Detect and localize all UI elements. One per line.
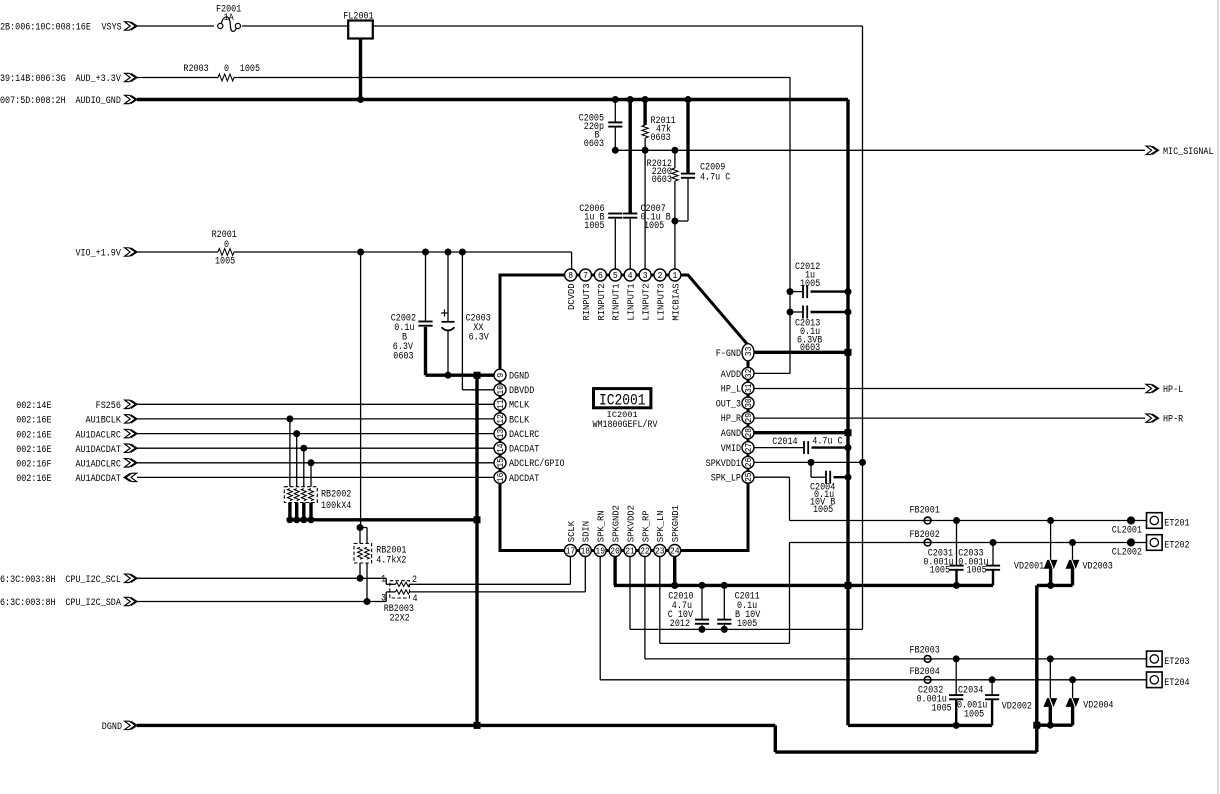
svg-text:7: 7: [583, 270, 588, 281]
wire VSYS: [137, 25, 214, 27]
terminal ET202: [1147, 535, 1163, 551]
IC2001 pin 19 SPK_RN: [594, 545, 606, 557]
IC2001 pin 11 MCLK: [494, 398, 506, 410]
svg-text:6:3C:003:8H: 6:3C:003:8H: [0, 575, 56, 586]
IC2001 pin 20 SPKGND2: [609, 545, 621, 557]
svg-text:CL2001: CL2001: [1112, 526, 1142, 537]
wire FL2001 to AUDIO_GND rail: [359, 39, 362, 100]
svg-text:IC2001: IC2001: [599, 392, 646, 410]
svg-text:4: 4: [628, 270, 633, 281]
svg-text:002:16E: 002:16E: [16, 474, 51, 485]
svg-text:F-GND: F-GND: [716, 349, 741, 360]
svg-text:007:5D:008:2H: 007:5D:008:2H: [0, 96, 66, 107]
svg-text:AU1ADCLRC: AU1ADCLRC: [75, 460, 120, 471]
IC2001 pin 8 DCVDD: [565, 269, 577, 281]
svg-text:CL2002: CL2002: [1112, 548, 1142, 559]
wire CPU_I2C_SCL: [137, 577, 386, 579]
svg-text:002:16E: 002:16E: [16, 430, 51, 441]
svg-text:18: 18: [581, 546, 591, 557]
wire DGND bottom rail: [137, 724, 775, 727]
IC2001 pin 3 LINPUT2: [639, 269, 651, 281]
svg-text:OUT_3: OUT_3: [716, 399, 741, 410]
terminal ET204: [1147, 672, 1163, 688]
svg-text:VSYS: VSYS: [102, 23, 122, 34]
svg-text:3: 3: [381, 593, 386, 604]
svg-text:22: 22: [640, 546, 650, 557]
svg-text:30: 30: [743, 398, 754, 408]
svg-text:AU1DACDAT: AU1DACDAT: [75, 445, 120, 456]
wire RB2003 to SDIN pin18: [410, 591, 586, 593]
svg-text:ET203: ET203: [1164, 657, 1189, 668]
IC2001 pin 4 LINPUT1: [624, 269, 636, 281]
svg-text:22X2: 22X2: [390, 614, 410, 625]
svg-text:6:3C:003:8H: 6:3C:003:8H: [0, 598, 56, 609]
svg-text:1005: 1005: [215, 257, 235, 268]
svg-text:RINPUT3: RINPUT3: [581, 284, 592, 321]
IC2001 pin 6 RINPUT2: [594, 269, 606, 281]
wire DGND vertical rail: [475, 375, 478, 725]
svg-text:HP_L: HP_L: [721, 385, 741, 396]
svg-text:FB2002: FB2002: [910, 530, 940, 541]
svg-text:AVDD: AVDD: [721, 370, 741, 381]
svg-text:FB2004: FB2004: [910, 667, 940, 678]
svg-text:VIO_+1.9V: VIO_+1.9V: [75, 249, 120, 260]
wire LINPUT2 pin3 column: [644, 150, 646, 269]
IC2001 pin 13 DACLRC: [494, 428, 506, 440]
svg-text:25: 25: [743, 472, 754, 482]
svg-text:MICBIAS: MICBIAS: [670, 283, 681, 321]
svg-text:DGND: DGND: [509, 372, 529, 383]
dot CL2001: [1127, 516, 1135, 524]
IC2001 pin 15 ADCLRC/GPIO: [494, 457, 506, 469]
wire RB2001 to I2C lines: [359, 563, 361, 578]
svg-text:LINPUT1: LINPUT1: [626, 283, 637, 321]
wire MIC_SIGNAL net: [615, 149, 1145, 151]
svg-text:23: 23: [655, 546, 665, 557]
svg-text:AU1DACLRC: AU1DACLRC: [75, 430, 120, 441]
svg-text:1005: 1005: [584, 221, 604, 232]
svg-text:1005: 1005: [737, 619, 757, 630]
wire RB2002 ground bar: [287, 518, 477, 521]
wire DBVDD to VIO: [461, 252, 463, 390]
svg-text:13: 13: [495, 429, 506, 439]
terminal ET201: [1147, 513, 1163, 529]
svg-text:0603: 0603: [652, 175, 672, 186]
IC2001 pin 25 SPK_LP: [742, 471, 754, 483]
svg-text:1005: 1005: [644, 221, 664, 232]
wire FS256: [137, 403, 495, 405]
svg-text:MIC_SIGNAL: MIC_SIGNAL: [1163, 147, 1214, 158]
wire RB2003 to SCLK pin17: [410, 583, 571, 585]
svg-text:6: 6: [598, 270, 603, 281]
svg-text:28: 28: [743, 428, 754, 438]
svg-text:17: 17: [566, 546, 576, 557]
svg-text:SPKGND1: SPKGND1: [670, 505, 681, 543]
svg-text:002:14E: 002:14E: [16, 401, 51, 412]
svg-text:VD2003: VD2003: [1083, 562, 1113, 573]
svg-text:002:16F: 002:16F: [16, 460, 51, 471]
svg-text:ADCDAT: ADCDAT: [509, 474, 539, 485]
svg-text:1005: 1005: [967, 566, 987, 577]
svg-text:4.7kX2: 4.7kX2: [376, 555, 406, 567]
wire HP_L: [754, 388, 1145, 390]
IC2001 pin 31 HP_L: [742, 382, 754, 394]
svg-text:0603: 0603: [800, 343, 820, 354]
svg-text:32: 32: [743, 369, 754, 379]
svg-text:SPKVDD2: SPKVDD2: [625, 505, 636, 542]
svg-text:39:14B:006:3G: 39:14B:006:3G: [0, 74, 66, 85]
svg-text:100kX4: 100kX4: [321, 500, 351, 512]
wire VIO to RB2001: [360, 252, 362, 528]
IC2001 pin 21 SPKVDD2: [624, 545, 636, 557]
dot CL2002: [1127, 538, 1135, 546]
wire FB2004 line to ET204: [992, 679, 1146, 681]
wire AUD_+3.3V: [137, 77, 218, 79]
svg-text:FB2003: FB2003: [910, 646, 940, 657]
svg-text:12: 12: [495, 414, 506, 424]
wire SPK_RP pin22 to FB2003: [644, 556, 646, 659]
svg-text:DCVDD: DCVDD: [566, 283, 577, 310]
resistor pack RB2002 100kX4: [284, 487, 317, 503]
svg-text:HP_R: HP_R: [721, 414, 741, 425]
IC2001 pin 17 SCLK: [564, 545, 576, 557]
svg-text:4.7u C: 4.7u C: [700, 173, 730, 184]
wire AVDD to AUD_+3.3V: [754, 372, 790, 374]
resistor pack RB2001 4.7kX2: [360, 527, 367, 529]
wire VIO_+1.9V: [137, 251, 218, 253]
svg-text:VD2002: VD2002: [1002, 702, 1032, 713]
svg-text:1: 1: [381, 574, 386, 585]
svg-text:11: 11: [495, 399, 506, 409]
svg-text:CPU_I2C_SDA: CPU_I2C_SDA: [65, 598, 121, 609]
svg-text:4.7u C: 4.7u C: [812, 437, 842, 448]
wire SPK_RN pin19 to FB2004: [599, 556, 601, 680]
svg-text:VD2004: VD2004: [1083, 701, 1113, 712]
wire RB2002 leads to ground bar: [288, 503, 291, 520]
svg-text:RINPUT1: RINPUT1: [611, 283, 622, 321]
svg-text:27: 27: [743, 443, 754, 453]
svg-text:AUDIO_GND: AUDIO_GND: [75, 96, 120, 107]
svg-text:29: 29: [743, 413, 754, 423]
IC2001 pin 5 RINPUT1: [609, 269, 621, 281]
svg-text:1005: 1005: [813, 505, 833, 516]
IC2001 pin 7 RINPUT3: [580, 269, 592, 281]
svg-text:AGND: AGND: [721, 429, 741, 440]
svg-text:SDIN: SDIN: [581, 521, 592, 542]
svg-text:HP-R: HP-R: [1163, 415, 1183, 426]
svg-text:C2014: C2014: [772, 437, 797, 448]
wire FB2003 line to ET203: [956, 658, 1146, 660]
junction SPKGND rail / AUDIO_GND: [845, 582, 852, 589]
wire F-GND to AUDIO_GND: [754, 351, 848, 354]
svg-text:1005: 1005: [930, 566, 950, 577]
IC2001 pin 26 SPKVDD1: [742, 456, 754, 468]
svg-text:DACDAT: DACDAT: [509, 445, 539, 456]
svg-text:AU1ADCDAT: AU1ADCDAT: [75, 474, 120, 485]
svg-text:FS256: FS256: [96, 401, 121, 412]
wire VD upper ground: [1037, 584, 1073, 587]
svg-text:16: 16: [495, 473, 506, 483]
IC2001 pin 12 BCLK: [494, 413, 506, 425]
wire SPK_LN pin23 to FB2002: [659, 556, 661, 643]
IC2001 pin 10 DBVDD: [494, 384, 506, 396]
IC2001 pin 1 MICBIAS: [669, 269, 681, 281]
svg-text:1005: 1005: [964, 710, 984, 721]
IC2001 pin 14 DACDAT: [494, 442, 506, 454]
IC2001 pin 33 F-GND: [742, 344, 754, 361]
svg-text:002:16E: 002:16E: [16, 416, 51, 427]
wire AU1DACLRC: [137, 433, 495, 435]
svg-text:FB2001: FB2001: [910, 506, 940, 517]
svg-text:20: 20: [610, 546, 620, 557]
wire AUDIO_GND rail: [137, 98, 848, 101]
IC2001 pin 2 LINPUT3: [654, 269, 666, 281]
junction RB2002 taps: [286, 415, 293, 422]
svg-text:3: 3: [643, 270, 648, 281]
svg-text:2B:006:10C:008:16E: 2B:006:10C:008:16E: [0, 23, 91, 34]
IC2001 pin 30 OUT_3: [742, 397, 754, 409]
wire SPK_LP line to ET201: [790, 520, 1147, 522]
svg-text:10: 10: [495, 385, 506, 395]
wire AU1ADCLRC: [137, 462, 495, 464]
svg-text:2012: 2012: [670, 619, 690, 630]
wire SPK_LN line to ET202: [790, 542, 1147, 544]
wire SPKVDD2 pin21 to VSYS: [629, 556, 631, 629]
svg-text:ADCLRC/GPIO: ADCLRC/GPIO: [509, 458, 565, 470]
IC2001 pin 9 DGND: [494, 369, 506, 381]
wire AGND to AUDIO_GND: [754, 431, 848, 434]
node HP-L off-page connector: [1146, 384, 1159, 392]
svg-text:R2003: R2003: [183, 64, 208, 75]
svg-text:6.3V: 6.3V: [469, 333, 489, 344]
svg-text:SPK_LP: SPK_LP: [711, 474, 741, 485]
wire VD lower ground: [1037, 724, 1073, 727]
wire SPKGND1 pin24 to rail: [673, 556, 676, 585]
svg-text:ET202: ET202: [1164, 541, 1189, 552]
svg-text:19: 19: [595, 546, 605, 557]
IC2001 pin 32 AVDD: [742, 367, 754, 379]
svg-text:HP-L: HP-L: [1163, 385, 1183, 396]
IC2001 pin 27 VMID: [742, 442, 754, 454]
svg-text:AU1BCLK: AU1BCLK: [86, 416, 121, 427]
IC2001 pin 22 SPK_RP: [639, 545, 651, 557]
wire AU1ADCDAT: [137, 476, 495, 478]
svg-text:26: 26: [743, 458, 754, 468]
junction VSYS-SPKVDD1: [859, 459, 866, 466]
svg-text:0603: 0603: [584, 139, 604, 150]
node HP-R off-page connector: [1146, 414, 1159, 422]
svg-text:SPK_RN: SPK_RN: [596, 510, 607, 542]
junction FL2001/AUDIO_GND: [357, 96, 364, 103]
svg-text:RB2002: RB2002: [321, 489, 351, 500]
svg-text:C2034: C2034: [958, 686, 983, 697]
svg-text:ET204: ET204: [1164, 678, 1189, 689]
svg-text:002:16E: 002:16E: [16, 445, 51, 456]
svg-text:VMID: VMID: [721, 444, 741, 455]
svg-text:0603: 0603: [651, 133, 671, 144]
wire SPK_LP pin25 to FB2001: [754, 476, 790, 478]
svg-text:31: 31: [743, 383, 754, 393]
IC2001 pin 16 ADCDAT: [494, 471, 506, 483]
svg-text:1005: 1005: [932, 704, 952, 715]
svg-text:DBVDD: DBVDD: [509, 386, 534, 397]
svg-text:LINPUT3: LINPUT3: [655, 284, 666, 321]
svg-text:DGND: DGND: [102, 722, 122, 733]
svg-text:DACLRC: DACLRC: [509, 430, 539, 441]
svg-text:2: 2: [658, 270, 663, 281]
svg-text:33: 33: [743, 347, 754, 357]
terminal ET203: [1147, 651, 1163, 667]
wire CPU_I2C_SDA: [137, 601, 386, 603]
svg-text:5: 5: [613, 270, 618, 281]
svg-text:1005: 1005: [240, 64, 260, 75]
sheet right border: [1217, 0, 1219, 794]
svg-text:SPKGND2: SPKGND2: [611, 505, 622, 542]
svg-text:14: 14: [495, 443, 506, 453]
node MIC_SIGNAL off-page connector: [1146, 146, 1159, 154]
svg-text:0603: 0603: [393, 352, 413, 363]
svg-text:IC2001: IC2001: [607, 410, 638, 420]
IC2001 pin 23 SPK_LN: [654, 545, 666, 557]
svg-text:SCLK: SCLK: [566, 521, 577, 543]
IC2001 pin 24 SPKGND1: [669, 545, 681, 557]
svg-text:8: 8: [568, 270, 573, 281]
wire SCLK SDIN handled above; wire SPKGND2 rail: [613, 556, 616, 585]
svg-text:SPK_LN: SPK_LN: [655, 510, 666, 542]
svg-text:15: 15: [495, 458, 506, 468]
op-amp codec IC2001 body outline: [500, 275, 748, 551]
wire RB2002 leads up: [289, 419, 291, 487]
svg-text:1: 1: [673, 270, 678, 281]
wire DGND pin9: [426, 374, 495, 377]
svg-text:CPU_I2C_SCL: CPU_I2C_SCL: [65, 575, 121, 586]
svg-text:SPKVDD1: SPKVDD1: [706, 459, 741, 470]
IC2001 pin 28 AGND: [742, 427, 754, 439]
svg-text:AUD_+3.3V: AUD_+3.3V: [75, 74, 120, 85]
svg-text:BCLK: BCLK: [509, 415, 529, 426]
svg-text:21: 21: [625, 546, 635, 557]
junction MICBIAS/C2009: [671, 218, 678, 225]
svg-text:LINPUT2: LINPUT2: [641, 284, 652, 321]
svg-text:ET201: ET201: [1164, 519, 1189, 530]
IC2001 pin 18 SDIN: [579, 545, 591, 557]
junction VIO taps: [357, 249, 364, 256]
svg-text:RINPUT2: RINPUT2: [596, 284, 607, 321]
wire SPKVDD1 to VSYS: [754, 461, 863, 463]
svg-text:MCLK: MCLK: [509, 401, 529, 412]
svg-text:9: 9: [495, 373, 506, 378]
wire HP_R: [754, 417, 1145, 419]
svg-text:24: 24: [670, 546, 680, 557]
svg-text:WM1800GEFL/RV: WM1800GEFL/RV: [593, 419, 658, 431]
svg-text:SPK_RP: SPK_RP: [640, 510, 651, 542]
IC2001 reference label box: [594, 389, 651, 408]
wire AU1BCLK: [137, 418, 495, 420]
IC2001 pin 29 HP_R: [742, 412, 754, 424]
wire AU1DACDAT: [137, 447, 495, 449]
svg-text:VD2001: VD2001: [1014, 562, 1044, 573]
resistor pack RB2003 22X2: [390, 581, 410, 598]
